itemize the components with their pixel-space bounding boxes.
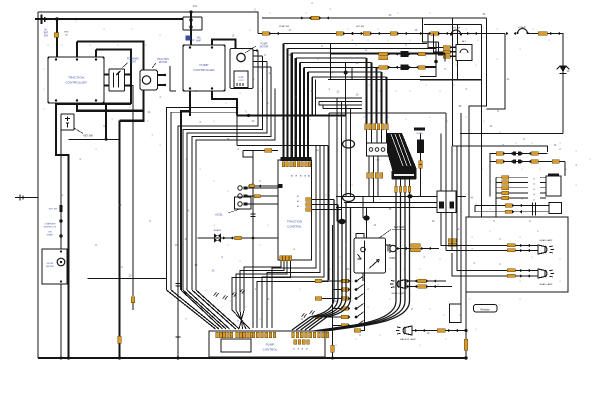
node fuse top junction bbox=[189, 10, 192, 13]
wire traction controller pin1 down bbox=[56, 103, 69, 358]
hour meter M1 bbox=[42, 249, 67, 284]
svg-text:LIFT SW: LIFT SW bbox=[356, 26, 364, 28]
node bus y196 junction bbox=[407, 194, 412, 198]
wire chain y205 left ends bbox=[474, 206, 476, 212]
alternator module U5 bbox=[456, 45, 472, 61]
backup lamp E4 bbox=[405, 326, 412, 335]
wire bottom ground bus bbox=[38, 357, 466, 359]
connector accelerator bbox=[254, 195, 260, 198]
connector chain y205 bbox=[505, 204, 512, 207]
connector chain y211 bbox=[505, 210, 512, 213]
svg-text:TRACTION: TRACTION bbox=[68, 76, 84, 80]
pump motor M3 bbox=[230, 49, 253, 89]
main connector J1 bbox=[392, 171, 417, 180]
wire fan TC bottom to pump control bbox=[239, 261, 281, 330]
wire bundle last drop bbox=[311, 77, 313, 116]
svg-text:B4: B4 bbox=[307, 175, 309, 177]
svg-text:HEAD LAMP: HEAD LAMP bbox=[540, 239, 553, 242]
wire pump controller pin2 down bbox=[212, 91, 237, 116]
fuse FU1 bbox=[183, 17, 202, 30]
label horn relay block bbox=[414, 128, 425, 131]
connector row CN3 bbox=[367, 173, 370, 179]
wire thick bus y49 staircase bbox=[96, 50, 131, 104]
svg-text:CONT: CONT bbox=[130, 62, 137, 64]
connector row CN1 bbox=[365, 124, 368, 130]
lamp enclosure bbox=[466, 217, 568, 292]
connector row y18 bbox=[301, 16, 311, 19]
svg-text:B1: B1 bbox=[295, 175, 297, 177]
switch S5 bbox=[333, 308, 342, 310]
wire alternator to chain rows bbox=[420, 62, 436, 77]
svg-text:A3: A3 bbox=[297, 205, 299, 208]
wire key switch down bbox=[60, 130, 62, 251]
battery BT1 bbox=[42, 15, 45, 25]
svg-text:P2: P2 bbox=[296, 348, 298, 350]
junction ring upper bbox=[343, 140, 355, 148]
svg-text:INTERLOCK: INTERLOCK bbox=[44, 227, 57, 229]
wire row y238 bbox=[198, 237, 279, 239]
connector stack alternator bbox=[443, 46, 450, 49]
wire row y24 bbox=[424, 24, 482, 26]
svg-text:PUMP: PUMP bbox=[200, 63, 209, 67]
wire x237 drop bbox=[237, 116, 243, 151]
svg-text:METER: METER bbox=[46, 266, 54, 268]
svg-text:A2: A2 bbox=[297, 200, 299, 203]
label seat switch bbox=[379, 230, 391, 239]
wire mid rows to relay bundle bbox=[337, 97, 362, 99]
wire long center drop x253 bbox=[252, 151, 254, 329]
pump control pin cluster 4 bbox=[292, 332, 295, 338]
wire battery positive bus bbox=[35, 18, 183, 20]
horn H1 bbox=[390, 245, 396, 251]
relay module K3 bbox=[546, 176, 561, 196]
svg-text:B2: B2 bbox=[299, 175, 301, 177]
svg-text:36V: 36V bbox=[44, 35, 49, 38]
node harness junction left bbox=[338, 219, 345, 225]
wire flasher feeds bbox=[441, 134, 452, 192]
svg-text:PUMP: PUMP bbox=[261, 44, 268, 46]
wire bus y115 center bbox=[237, 115, 346, 117]
wire relay bottom bbox=[362, 273, 364, 281]
connector chain y153 bbox=[496, 152, 503, 155]
flasher module K2 bbox=[437, 191, 456, 213]
wire lamp box ground drop bbox=[465, 292, 467, 358]
svg-text:KEY SW: KEY SW bbox=[49, 209, 58, 211]
svg-text:CHARGER: CHARGER bbox=[45, 223, 56, 226]
svg-text:BRAKE: BRAKE bbox=[214, 229, 222, 232]
strain relief marks fan A bbox=[214, 292, 219, 296]
wire right top outer corner bbox=[469, 18, 487, 134]
connector column left bbox=[502, 176, 509, 180]
wire flasher outputs bbox=[441, 213, 466, 251]
head lamp E2 bbox=[538, 245, 545, 254]
svg-text:START: START bbox=[47, 234, 55, 237]
connector row y33 items bbox=[262, 32, 269, 35]
wire main feed through fuse bbox=[190, 12, 192, 45]
seat switch relay K1 bbox=[354, 238, 386, 273]
wire long drop x120 bbox=[119, 121, 121, 358]
pump control module U4 bbox=[209, 331, 325, 357]
wire lamp E2 feeds bbox=[466, 246, 538, 251]
connector on key wire bbox=[59, 205, 62, 212]
head lamp E1 bbox=[399, 280, 406, 289]
wire x133 tail bbox=[132, 303, 134, 311]
brake switch symbol bbox=[214, 234, 221, 243]
wire link y278 bbox=[88, 278, 167, 280]
wire fan A to pump control connector bbox=[167, 290, 216, 329]
traction controller U1 bbox=[48, 57, 104, 103]
wire chain y205 bbox=[475, 205, 549, 207]
wire hour meter down bbox=[60, 284, 62, 358]
fuse F2 cartridge bbox=[417, 140, 424, 154]
wire traction motor drop bbox=[170, 66, 176, 91]
svg-text:FU1: FU1 bbox=[193, 5, 198, 8]
label fuse amp bbox=[186, 36, 191, 41]
wire fan B right group bbox=[314, 193, 397, 332]
node charger interlock upper bbox=[59, 219, 62, 222]
node charger interlock lower bbox=[59, 234, 62, 237]
svg-text:KEY SW: KEY SW bbox=[452, 28, 461, 30]
wire thick bus y41 to pump area bbox=[77, 42, 144, 121]
svg-text:AMP: AMP bbox=[196, 39, 201, 42]
wire traction controller pin2 down staircase bbox=[77, 103, 144, 111]
wire CN3 to bus bbox=[369, 178, 378, 202]
label accelerator bbox=[228, 209, 240, 213]
pump contactor P1 bbox=[234, 71, 248, 88]
svg-text:Resistor: Resistor bbox=[480, 307, 490, 311]
traction control top connector bbox=[281, 157, 312, 161]
strain relief marks fan B bbox=[302, 313, 307, 317]
svg-text:B3: B3 bbox=[304, 175, 306, 177]
wire chain row y66 bbox=[352, 66, 436, 68]
wire frame left border bbox=[37, 12, 39, 358]
wire chain right drop bbox=[564, 162, 566, 177]
round pin connector CN2 bbox=[367, 143, 390, 156]
contactor F1 forward-reverse bbox=[109, 69, 125, 91]
svg-text:ACCEL: ACCEL bbox=[215, 214, 223, 217]
svg-text:CONTROL: CONTROL bbox=[263, 348, 278, 352]
wire bus to traction controller B+ bbox=[56, 19, 58, 57]
connector pair right of horn bbox=[448, 239, 456, 242]
node chain junction bbox=[344, 71, 348, 75]
wire horn feed riser bbox=[487, 34, 506, 110]
wire long feed y79 bbox=[328, 79, 482, 81]
wire thin link y139 bbox=[69, 138, 120, 140]
wire chain y153 bbox=[496, 153, 548, 155]
connector switch bus tail bbox=[354, 329, 361, 332]
wire fuse F2 leads bbox=[420, 134, 422, 161]
wire backup lamp chain bbox=[412, 330, 466, 332]
svg-text:HEAD LAMP: HEAD LAMP bbox=[392, 292, 405, 295]
wire left lines y145 y150 bbox=[237, 145, 315, 147]
wire bus y202 bbox=[344, 201, 437, 203]
wire traction motor right pins bbox=[158, 75, 167, 85]
wire y238 left end bbox=[197, 237, 199, 239]
switch S3 bbox=[333, 289, 342, 291]
wire pump assembly right pins bbox=[253, 51, 271, 68]
switch S6 bbox=[333, 316, 342, 318]
wire pump controller pin1 down bbox=[189, 91, 191, 116]
wire row y18 bbox=[262, 17, 487, 19]
svg-text:PUMP: PUMP bbox=[238, 77, 244, 79]
wire verticals through relay area bbox=[337, 196, 342, 221]
pump control pin cluster 3 bbox=[252, 332, 255, 338]
svg-text:KEY SW: KEY SW bbox=[83, 135, 93, 138]
svg-text:10 AMP: 10 AMP bbox=[518, 26, 526, 29]
key switch box S1 bbox=[61, 114, 74, 130]
svg-text:RED: RED bbox=[64, 32, 69, 34]
wire lamp feed y134 bbox=[460, 133, 563, 135]
wire bus y115 to junction bbox=[345, 73, 347, 116]
diode D1 bbox=[559, 66, 566, 73]
wire chain y211 bbox=[475, 211, 549, 213]
svg-text:HORN: HORN bbox=[389, 258, 396, 260]
wire feed y146 bbox=[453, 146, 548, 152]
svg-text:TRACTION: TRACTION bbox=[287, 220, 302, 224]
wire contactor left pins bbox=[104, 75, 109, 86]
connector breaks on x178 drop bbox=[176, 284, 181, 287]
wire right verticals middle bbox=[446, 113, 466, 251]
wire switch bank right bus bbox=[354, 241, 365, 331]
wire traction control right pins bbox=[306, 198, 312, 201]
node harness junction right bbox=[363, 215, 369, 220]
wire chain y161 bbox=[490, 161, 565, 163]
connector on x120 wire bbox=[118, 336, 121, 343]
enclosure bottom right corner bbox=[450, 304, 462, 323]
svg-text:HOUR: HOUR bbox=[47, 263, 54, 265]
wire J1 to pins bbox=[396, 180, 410, 187]
svg-text:P1: P1 bbox=[292, 348, 294, 350]
module K4 bbox=[549, 203, 562, 214]
svg-text:MOTOR: MOTOR bbox=[159, 62, 168, 64]
svg-text:CONTROLLER: CONTROLLER bbox=[193, 68, 215, 72]
pump controller U2 bbox=[183, 45, 225, 91]
wire bundle pump to left bends bbox=[178, 51, 258, 359]
switch S2 bbox=[333, 280, 342, 282]
svg-text:B0: B0 bbox=[290, 175, 292, 177]
accelerator sensor R1 bbox=[235, 197, 252, 209]
pump control pin cluster 1 bbox=[216, 332, 219, 338]
wire mid bundle sources bbox=[312, 98, 350, 116]
svg-text:TRACTION: TRACTION bbox=[157, 58, 169, 61]
node x120 bus join bbox=[118, 356, 121, 359]
wire right top inner corner bbox=[420, 25, 482, 147]
wire rows drop to connector row1 bbox=[367, 58, 387, 124]
connector on left bus bbox=[331, 345, 335, 352]
wire horn chain bbox=[386, 245, 440, 249]
svg-text:CONTROL: CONTROL bbox=[287, 225, 302, 229]
wire chain left feeds bbox=[490, 154, 496, 197]
svg-text:PUMP SW: PUMP SW bbox=[279, 26, 289, 28]
switch S7 bbox=[333, 325, 342, 327]
label key switch bbox=[74, 128, 83, 134]
wire bus y207 bbox=[336, 206, 452, 208]
wire bundle rows to traction control bbox=[284, 43, 428, 45]
node alternator junction bbox=[434, 60, 438, 64]
traction control bottom connector bbox=[280, 256, 283, 261]
wire drop x345 x352 bbox=[346, 63, 352, 80]
wire alternator feeders bbox=[423, 18, 437, 62]
key switch dome on row y33 bbox=[451, 30, 461, 35]
svg-text:MOTOR: MOTOR bbox=[260, 47, 269, 49]
wire right verticals into lamp box bbox=[468, 134, 470, 218]
label forward contactor bbox=[122, 63, 128, 69]
wire left frame stub bbox=[15, 197, 38, 199]
wire pump controller pin1 route bbox=[181, 91, 190, 290]
node pin1 bus join bbox=[67, 356, 70, 359]
head lamp E3 bbox=[538, 269, 545, 278]
svg-text:CONT: CONT bbox=[238, 80, 244, 82]
traction motor M2 bbox=[140, 70, 158, 90]
wire lamp E3 feeds bbox=[466, 271, 538, 277]
switch S4 bbox=[333, 298, 342, 300]
node battery junction bbox=[55, 17, 59, 21]
wire fuse to corner bbox=[528, 34, 564, 134]
wire CN2 to CN3 bbox=[369, 156, 378, 173]
svg-text:HEAD LAMP: HEAD LAMP bbox=[540, 283, 553, 286]
wire outer box left edge bbox=[452, 18, 454, 146]
enclosure top edge bbox=[329, 112, 446, 114]
wire inner box left edge bbox=[457, 25, 459, 81]
label traction motor bbox=[152, 63, 156, 68]
svg-text:BACKUP LAMP: BACKUP LAMP bbox=[400, 338, 416, 341]
strain relief marks fan TC bbox=[232, 292, 237, 296]
wire switch bank feeds from left bbox=[322, 281, 333, 317]
wire long drop x133 from motor bbox=[130, 86, 133, 297]
connector chain y161 bbox=[496, 160, 503, 163]
wire switch bank left bus bbox=[332, 225, 334, 358]
connector on x133 wire bbox=[131, 297, 134, 303]
label pump motor bbox=[245, 46, 256, 53]
wire chain row y54 bbox=[330, 44, 332, 80]
wire bundle right verticals tops bbox=[315, 146, 328, 151]
wire traction controller pin3 up bbox=[95, 50, 97, 58]
wire head lamp feeds bbox=[406, 281, 452, 287]
wire pump controller pin2 up bbox=[212, 40, 236, 49]
wire traction controller pin3 down bbox=[95, 103, 97, 104]
svg-text:P3: P3 bbox=[301, 348, 303, 350]
svg-text:PUMP: PUMP bbox=[266, 343, 275, 347]
svg-text:P4: P4 bbox=[305, 348, 307, 350]
svg-text:A1: A1 bbox=[297, 195, 299, 198]
pin B+ traction controller bbox=[55, 58, 57, 60]
wire frame top border bbox=[38, 12, 258, 34]
resistor R2 box bbox=[474, 305, 498, 313]
harness bundle to main connector bbox=[387, 133, 417, 171]
wire direction input row bbox=[248, 185, 278, 187]
connector on y150 wire bbox=[265, 149, 272, 152]
wire traction controller pin1 staircase bbox=[56, 103, 131, 105]
connector on B+ wire bbox=[54, 33, 59, 37]
wire thin taps y107 y112 bbox=[167, 108, 238, 291]
fuse FU10 dome bbox=[518, 29, 528, 34]
wire contactor right pins bbox=[125, 75, 132, 86]
wire row y33 main accessory feed bbox=[258, 33, 505, 35]
wire fan TC right to cluster3 bbox=[272, 150, 316, 328]
relay notch bbox=[356, 234, 364, 239]
svg-text:CONTROLLER: CONTROLLER bbox=[65, 81, 87, 85]
wire CN1 to CN2 bbox=[367, 130, 387, 144]
wire bus y196 bbox=[336, 195, 466, 197]
svg-text:FORWARD: FORWARD bbox=[127, 58, 139, 61]
wire fan B left group bbox=[292, 200, 334, 331]
svg-text:ALT: ALT bbox=[462, 40, 467, 43]
wire column left riser bbox=[495, 177, 497, 198]
pump control second pin row bbox=[294, 340, 297, 345]
junction ring lower bbox=[343, 194, 355, 202]
connector ground drop bbox=[464, 339, 468, 350]
traction control module U3 bbox=[278, 160, 312, 260]
connector chain y54 bbox=[379, 52, 388, 55]
svg-text:HORN: HORN bbox=[417, 133, 423, 135]
connector chain y66 bbox=[379, 66, 388, 69]
connector pins below J1 bbox=[395, 186, 398, 192]
node hour meter bus join bbox=[60, 357, 63, 360]
pump control pin cluster 2 bbox=[236, 332, 239, 338]
connector fuse F2 bbox=[419, 161, 422, 165]
wire traction controller pin2 up bbox=[76, 42, 78, 58]
